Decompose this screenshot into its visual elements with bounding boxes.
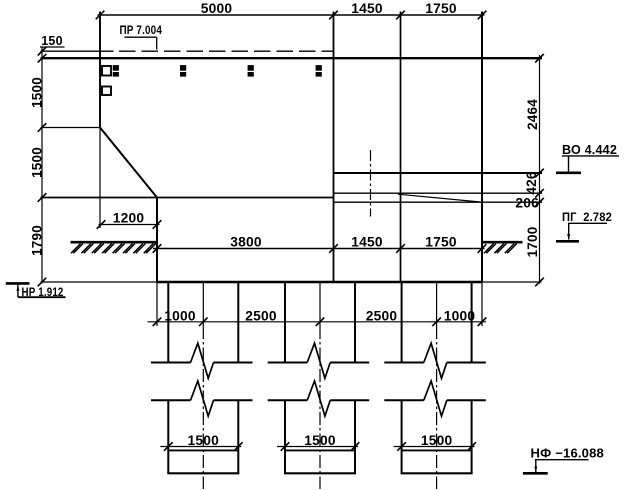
tick left dim at footing top bbox=[38, 193, 47, 202]
ledge line y=193.2 bbox=[334, 192, 543, 194]
pier axis centerline x=370.5 bbox=[370, 150, 372, 217]
tick 1750 bottom right bbox=[478, 244, 487, 253]
pile P2 left edge lower bbox=[284, 400, 286, 473]
tick lower dim pile1 axis bbox=[199, 318, 208, 327]
level mark НР 1.912 bbox=[6, 283, 66, 298]
pile P1 break symbol upper bbox=[151, 343, 253, 378]
tick top dim at x=333.5 bbox=[329, 11, 338, 20]
svg-text:НР 1.912: НР 1.912 bbox=[22, 285, 64, 299]
roadway level line solid part bbox=[41, 50, 114, 52]
bearing block filled 1 lower bbox=[113, 72, 119, 77]
tick 3800 left bbox=[153, 244, 162, 253]
tick top dim at x=100 bbox=[96, 11, 105, 20]
underline of 150 bbox=[40, 46, 65, 48]
right vertical dimension line bbox=[539, 55, 541, 284]
tick top dim at x=482 bbox=[478, 11, 487, 20]
pile P1 tick 1500 right bbox=[234, 442, 243, 451]
pile P1 bottom line bbox=[167, 472, 239, 474]
svg-text:ПР 7.004: ПР 7.004 bbox=[120, 23, 163, 37]
pile P2 centerline bbox=[319, 326, 321, 489]
extension footing left edge below bbox=[156, 282, 158, 326]
pile P2 bottom line bbox=[284, 472, 356, 474]
tick right dim y=202.2 bbox=[535, 198, 544, 207]
svg-text:2500: 2500 bbox=[366, 308, 398, 323]
ground hatch left bbox=[71, 242, 157, 253]
roadway level dashed line bbox=[119, 50, 334, 52]
right edge of pier x=482 bbox=[481, 12, 483, 283]
tick 3800 right bbox=[329, 244, 338, 253]
pile P3 left edge lower bbox=[401, 400, 403, 473]
sloped ledge diagonal bbox=[398, 194, 481, 202]
tick right dim footing bottom bbox=[535, 278, 544, 287]
level mark ПГ 2.782 bbox=[556, 210, 612, 242]
level mark ВО 4.442 bbox=[556, 142, 619, 173]
extension right edge below footing bbox=[481, 282, 483, 326]
pile P3 dimension line 1500 bbox=[394, 446, 475, 448]
tick left dim at cap top bbox=[38, 54, 47, 63]
svg-text:3800: 3800 bbox=[230, 235, 262, 250]
dimension line top chain 5000+1450+1750 bbox=[98, 14, 485, 16]
footing left edge bbox=[156, 198, 158, 283]
level line at y=127.5 to wall bbox=[41, 127, 101, 129]
pile P1 right edge lower bbox=[237, 400, 239, 473]
dimension line 1000+2500+2500+1000 bbox=[148, 321, 487, 323]
left vertical dimension line bbox=[41, 48, 43, 284]
pile P2 break symbol lower bbox=[268, 381, 370, 416]
bearing block filled 3 upper bbox=[248, 65, 254, 71]
extension line for 1200 dim below wall corner bbox=[99, 128, 101, 229]
svg-text:1750: 1750 bbox=[425, 235, 457, 250]
svg-text:426: 426 bbox=[524, 171, 539, 194]
level mark НФ −16.088 bbox=[523, 445, 604, 473]
leader underline ПР bbox=[125, 36, 157, 38]
pile P3 break symbol lower bbox=[384, 381, 486, 416]
bearing block filled 2 upper bbox=[180, 65, 186, 71]
pile P2 toe top line bbox=[285, 449, 355, 451]
extension pile1 axis below footing bbox=[202, 282, 204, 326]
bearing block filled 4 lower bbox=[316, 72, 322, 77]
pile P2 tick 1500 left bbox=[281, 442, 290, 451]
pier cap top line bbox=[41, 57, 543, 59]
tick lower dim footing left bbox=[153, 318, 162, 327]
pile P1 right edge upper bbox=[237, 283, 239, 363]
tick right dim BO level bbox=[535, 169, 544, 178]
ledge line y=202.2 bbox=[334, 201, 543, 203]
svg-text:1450: 1450 bbox=[351, 1, 383, 16]
tick top dim at x=400.5 bbox=[396, 11, 405, 20]
pile P3 left edge upper bbox=[401, 283, 403, 363]
pile P3 tick 1500 left bbox=[397, 442, 406, 451]
left wall of pier + extension to top dim bbox=[99, 12, 101, 128]
pile P1 break symbol lower bbox=[151, 381, 253, 416]
extension pile3 axis below footing bbox=[436, 282, 438, 326]
svg-text:НФ −16.088: НФ −16.088 bbox=[531, 445, 605, 460]
tick right dim y=193.2 bbox=[535, 189, 544, 198]
ice apron top line at BO level bbox=[334, 172, 543, 174]
bearing pad open square 1 bbox=[102, 66, 111, 76]
footing top line left part bbox=[41, 197, 334, 199]
vertical edge x=333.5 main body right bbox=[333, 12, 335, 283]
pile P2 tick 1500 right bbox=[351, 442, 360, 451]
svg-text:2464: 2464 bbox=[525, 99, 540, 130]
pile P1 tick 1500 left bbox=[164, 442, 173, 451]
svg-text:1500: 1500 bbox=[30, 77, 45, 108]
pile P3 right edge upper bbox=[471, 283, 473, 363]
tick lower dim pile3 axis bbox=[432, 318, 441, 327]
svg-text:ПГ 2.782: ПГ 2.782 bbox=[562, 210, 612, 224]
pile P1 centerline bbox=[202, 326, 204, 489]
bearing block filled 2 lower bbox=[180, 72, 186, 77]
dimension line 3800+1450+1750 bbox=[153, 248, 485, 250]
pile P1 left edge upper bbox=[167, 283, 169, 363]
pile P3 right edge lower bbox=[471, 400, 473, 473]
bearing block filled 4 upper bbox=[316, 65, 322, 71]
svg-text:1700: 1700 bbox=[525, 227, 540, 258]
tick left dim at roadway level bbox=[38, 47, 47, 56]
tick 1200 left bbox=[97, 220, 106, 229]
extension footing bottom to left dim bbox=[41, 281, 158, 283]
tick lower dim pile2 axis bbox=[316, 318, 325, 327]
svg-text:150: 150 bbox=[41, 34, 62, 48]
tick 1200 right bbox=[153, 220, 162, 229]
svg-text:5000: 5000 bbox=[201, 1, 233, 16]
bearing block filled 3 lower bbox=[248, 72, 254, 77]
bearing block filled 1 upper bbox=[113, 65, 119, 71]
tick left dim at y=127.5 bbox=[38, 123, 47, 132]
extension pile2 axis below footing bbox=[319, 282, 321, 326]
pile P1 toe top line bbox=[168, 449, 238, 451]
dimension line 1200 bbox=[99, 224, 160, 226]
svg-text:2500: 2500 bbox=[245, 308, 277, 323]
svg-text:1200: 1200 bbox=[113, 210, 145, 225]
svg-text:206: 206 bbox=[515, 196, 539, 211]
pile P2 left edge upper bbox=[284, 283, 286, 363]
pile P3 bottom line bbox=[401, 472, 473, 474]
svg-text:ВО 4.442: ВО 4.442 bbox=[562, 142, 617, 157]
pile P2 dimension line 1500 bbox=[277, 446, 358, 448]
ground hatch right bbox=[483, 242, 523, 253]
pile P3 break symbol upper bbox=[384, 343, 486, 378]
pile P3 centerline bbox=[436, 326, 438, 489]
pile P2 break symbol upper bbox=[268, 343, 370, 378]
tick right dim cap top bbox=[535, 54, 544, 63]
leader drop ПР bbox=[156, 37, 158, 49]
pile P1 dimension line 1500 bbox=[160, 446, 241, 448]
pile P3 toe top line bbox=[402, 449, 472, 451]
pile P1 left edge lower bbox=[167, 400, 169, 473]
bearing pad open square 2 bbox=[102, 87, 111, 96]
extension footing bottom to right dim bbox=[482, 281, 542, 283]
svg-text:1500: 1500 bbox=[30, 147, 45, 178]
slope face of pier bbox=[100, 128, 157, 198]
footing bottom line bbox=[157, 281, 482, 283]
svg-text:1790: 1790 bbox=[30, 225, 45, 256]
pile P2 right edge lower bbox=[354, 400, 356, 473]
tick 1450 bottom right bbox=[396, 244, 405, 253]
vertical edge x=400.5 bay divider bbox=[400, 12, 402, 283]
pile P2 right edge upper bbox=[354, 283, 356, 363]
pile P3 tick 1500 right bbox=[467, 442, 476, 451]
tick lower dim footing right bbox=[478, 318, 487, 327]
tick left dim at footing bottom bbox=[38, 278, 47, 287]
svg-text:1750: 1750 bbox=[425, 1, 457, 16]
svg-text:1450: 1450 bbox=[351, 235, 383, 250]
